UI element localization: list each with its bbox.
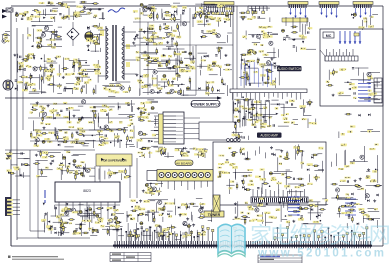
- signal arrow: [48, 221, 51, 223]
- value label: [77, 15, 81, 17]
- wire: [171, 40, 173, 46]
- wire: [101, 12, 103, 19]
- value label: [254, 121, 258, 123]
- diode D65: [50, 225, 52, 228]
- value label: [257, 205, 261, 207]
- value label: [6, 153, 12, 155]
- value label: [143, 75, 148, 77]
- value label: [263, 54, 269, 56]
- resistor R5: [80, 1, 87, 3]
- wire: [55, 128, 57, 140]
- wire: [219, 66, 221, 76]
- wire: [144, 68, 155, 70]
- signal arrow: [292, 39, 295, 41]
- value label: [159, 214, 163, 216]
- wire: [148, 112, 158, 114]
- wire: [129, 145, 135, 147]
- wire: [278, 181, 280, 194]
- wire: [17, 85, 19, 91]
- signal arrow: [241, 180, 243, 183]
- capacitor C65: [291, 103, 292, 105]
- capacitor C133: [54, 228, 56, 229]
- capacitor C59: [249, 84, 250, 86]
- wire: [107, 112, 109, 123]
- wire: [33, 29, 35, 42]
- ground: [133, 37, 136, 40]
- wire: [279, 197, 293, 199]
- capacitor C16: [20, 56, 21, 58]
- value label: [113, 91, 119, 93]
- capacitor C144: [201, 31, 203, 32]
- value label: [62, 222, 65, 224]
- transistor Q39: [216, 34, 220, 38]
- wire: [314, 170, 324, 172]
- wire: [164, 82, 166, 89]
- value label: [50, 17, 54, 19]
- capacitor C37: [164, 23, 165, 25]
- wire: [364, 99, 380, 101]
- value label: [79, 128, 84, 130]
- wire: [143, 103, 145, 110]
- diode D75: [357, 223, 359, 226]
- value label: [65, 6, 70, 8]
- svg-text:MC: MC: [326, 34, 332, 38]
- value label: [133, 10, 138, 12]
- wire: [23, 12, 28, 14]
- value label: [114, 136, 118, 138]
- wire: [99, 18, 105, 20]
- wire: [87, 207, 89, 217]
- diode D36: [368, 114, 370, 117]
- capacitor C76: [352, 68, 354, 69]
- wire: [58, 231, 60, 236]
- wire: [303, 222, 308, 224]
- box optocoupler: [199, 122, 240, 141]
- resistor R142: [315, 174, 317, 181]
- value label: [218, 6, 221, 8]
- value label: [98, 144, 104, 146]
- wire: [54, 38, 62, 40]
- value label: [24, 60, 28, 62]
- capacitor C42: [169, 67, 170, 69]
- value label: [39, 106, 44, 108]
- node N17: [236, 134, 238, 136]
- capacitor C123: [75, 229, 77, 230]
- wire: [105, 86, 121, 88]
- wire: [336, 153, 338, 166]
- wire: [38, 175, 47, 177]
- value label: [370, 16, 373, 18]
- wire: [184, 57, 196, 59]
- node N30: [137, 215, 139, 217]
- wire: [32, 25, 36, 27]
- value label: [162, 230, 166, 232]
- signal arrow: [163, 54, 166, 56]
- wire: [118, 113, 135, 115]
- resistor R196: [239, 12, 246, 14]
- resistor R36: [174, 15, 176, 22]
- value label: [153, 43, 158, 46]
- value label: [143, 109, 147, 112]
- wire: [72, 12, 74, 20]
- value label: [313, 122, 317, 124]
- wire: [158, 81, 167, 83]
- resistor R26: [79, 60, 81, 67]
- wire: [198, 52, 208, 54]
- signal arrow: [53, 117, 56, 119]
- resistor R62: [221, 78, 223, 85]
- connector CN10 top comb: [203, 6, 234, 15]
- value label: [146, 147, 149, 149]
- value label: [56, 215, 60, 217]
- signal arrow: [43, 17, 46, 19]
- value label: [299, 105, 305, 108]
- connector CN9 board edge strip: [113, 241, 372, 248]
- wire: [360, 131, 372, 133]
- box MC section: [320, 29, 383, 106]
- wire: [277, 157, 279, 172]
- wire: [288, 191, 304, 193]
- capacitor row CN10: [204, 2, 234, 5]
- resistor R172: [92, 227, 94, 234]
- diode D42: [60, 162, 62, 165]
- wire: [186, 89, 208, 91]
- electrolytic capacitor C36: [205, 15, 208, 18]
- capacitor C125: [77, 214, 79, 215]
- wire: [160, 226, 162, 240]
- value label: [183, 235, 188, 237]
- wire: [11, 164, 18, 166]
- wire: [252, 42, 260, 44]
- resistor R163: [63, 226, 65, 233]
- transistor Q37: [350, 202, 354, 206]
- value label: [341, 133, 345, 136]
- transistor Q7: [182, 22, 186, 26]
- wire: [338, 132, 340, 139]
- value label: [368, 25, 374, 27]
- svg-text:维: 维: [290, 223, 312, 248]
- resistor R123: [139, 148, 146, 150]
- blue mark CN2: [44, 190, 46, 203]
- wire: [235, 172, 237, 179]
- diode D61: [244, 188, 246, 191]
- wire: [116, 81, 131, 83]
- resistor R46: [163, 28, 170, 30]
- diode D63: [377, 194, 379, 197]
- electrolytic capacitor C1: [23, 13, 26, 16]
- value label: [374, 208, 378, 210]
- resistor R20: [30, 73, 32, 80]
- diode D76: [283, 38, 285, 41]
- resistor R58: [218, 47, 220, 54]
- value label: [268, 117, 271, 119]
- signal arrow: [87, 48, 89, 51]
- value label: [260, 126, 265, 128]
- value label: [61, 17, 66, 19]
- diode D39: [129, 140, 131, 143]
- ground: [6, 153, 9, 156]
- value label: [338, 168, 344, 170]
- wire: [25, 165, 30, 167]
- wire: [211, 4, 218, 6]
- capacitor C124: [81, 212, 82, 214]
- electrolytic capacitor C119: [232, 153, 235, 156]
- connector CN13 top comb: [319, 2, 339, 19]
- capacitor C24: [73, 65, 75, 66]
- resistor R77: [243, 99, 250, 101]
- wire: [5, 153, 25, 155]
- diode D55: [307, 168, 309, 171]
- wire: [280, 205, 282, 222]
- value label: [230, 181, 234, 183]
- diode D70: [311, 208, 313, 211]
- value label: [63, 138, 69, 140]
- transistor Q32: [71, 208, 75, 212]
- diode D72: [367, 199, 369, 202]
- resistor R113: [40, 150, 42, 157]
- diode D58: [271, 153, 273, 156]
- value label: [46, 225, 52, 228]
- value label: [32, 89, 36, 91]
- value label: [253, 114, 256, 116]
- value label: [281, 173, 284, 176]
- value label: [147, 189, 152, 191]
- value label: [207, 66, 210, 68]
- value label: [78, 65, 82, 67]
- node N14: [246, 110, 248, 112]
- capacitor C87: [60, 110, 62, 111]
- SAW filter Z1: [213, 195, 220, 212]
- capacitor C111: [200, 207, 202, 208]
- resistor R82: [238, 133, 240, 140]
- value label: [229, 187, 233, 189]
- value label: [30, 83, 36, 85]
- capacitor C13: [54, 43, 55, 45]
- value label: [97, 27, 103, 30]
- wire: [233, 172, 252, 174]
- value label: [104, 138, 109, 140]
- value label: [82, 220, 86, 222]
- transistor Q19: [35, 138, 39, 142]
- value label: [70, 141, 75, 143]
- wire: [90, 30, 92, 44]
- wire: [89, 175, 95, 177]
- resistor R189: [339, 205, 346, 207]
- value label: [100, 109, 106, 111]
- capacitor C19: [30, 76, 32, 77]
- resistor R188: [359, 212, 366, 214]
- diode D19: [176, 73, 178, 76]
- value label: [212, 61, 216, 64]
- value label: [131, 200, 136, 202]
- wire: [170, 14, 172, 21]
- value label: [77, 128, 81, 130]
- svg-text:AUDIO SWITCH: AUDIO SWITCH: [277, 67, 301, 71]
- resistor R137: [242, 175, 249, 177]
- resistor R52: [156, 48, 158, 55]
- value label: [210, 81, 214, 83]
- wire: [73, 109, 80, 111]
- capacitor C141: [348, 214, 349, 216]
- node N46: [294, 39, 296, 41]
- resistor R154: [298, 144, 300, 151]
- value label: [326, 81, 330, 83]
- capacitor C26: [64, 89, 65, 91]
- resistor R57: [224, 64, 231, 66]
- transistor Q20: [101, 140, 105, 144]
- svg-text:家: 家: [250, 223, 272, 248]
- value label: [58, 219, 61, 221]
- value label: [176, 53, 182, 55]
- value label: [275, 107, 279, 110]
- resistor R177: [80, 223, 82, 230]
- wire: [96, 134, 103, 136]
- wire: [84, 68, 100, 70]
- value label: [88, 228, 92, 230]
- value label: [309, 204, 315, 206]
- value label: [341, 144, 347, 146]
- value label: [221, 4, 225, 6]
- value label: [172, 91, 177, 93]
- value label: [228, 147, 232, 149]
- signal arrow: [201, 36, 203, 39]
- value label: [61, 210, 65, 213]
- node N13: [243, 118, 245, 120]
- wire: [63, 1, 76, 3]
- value label: [283, 117, 288, 120]
- wire: [267, 69, 269, 77]
- wire: [150, 191, 152, 196]
- value label: [212, 33, 217, 35]
- node N18: [347, 81, 349, 83]
- node N8: [181, 84, 183, 86]
- wire: [186, 151, 188, 156]
- wire bottom-left loop inner: [30, 150, 45, 231]
- node N25: [151, 140, 153, 142]
- value label: [347, 131, 352, 133]
- value label: [81, 75, 87, 77]
- node N21: [92, 135, 94, 137]
- wire: [142, 8, 144, 15]
- ground: [332, 94, 335, 97]
- wire: [62, 165, 64, 175]
- title block table 2: [258, 255, 302, 263]
- wire: [182, 94, 188, 96]
- wire: [127, 223, 129, 237]
- wire: [155, 117, 157, 126]
- value label: [106, 106, 109, 108]
- wire: [254, 115, 256, 127]
- value label: [113, 218, 117, 220]
- svg-text:POWER SUPPLY: POWER SUPPLY: [191, 103, 220, 107]
- value label: [75, 139, 80, 141]
- value label: [47, 79, 50, 81]
- signal arrow: [131, 235, 134, 237]
- capacitor C84: [105, 135, 106, 137]
- wire: [145, 211, 159, 213]
- capacitor C110: [147, 211, 149, 212]
- wire: [39, 169, 53, 171]
- wire: [15, 18, 17, 22]
- wire: [22, 172, 24, 178]
- wire: [64, 149, 70, 151]
- wire: [294, 145, 296, 159]
- wire: [266, 221, 273, 223]
- wire: [310, 207, 312, 220]
- wire: [158, 68, 175, 70]
- pins U2: [59, 202, 115, 223]
- resistor R182: [319, 209, 326, 211]
- value label: [263, 32, 267, 35]
- value label: [240, 212, 243, 214]
- wire: [78, 105, 83, 107]
- wire: [278, 71, 280, 86]
- wire: [199, 64, 201, 69]
- transistor Q40: [120, 86, 124, 90]
- capacitor C139: [301, 216, 303, 217]
- value label: [341, 144, 347, 146]
- value label: [63, 136, 69, 138]
- resistor R165: [62, 222, 69, 224]
- wire: [62, 154, 64, 160]
- wire: [269, 17, 271, 22]
- wire: [244, 217, 250, 219]
- ground: [224, 54, 227, 57]
- value label: [190, 67, 196, 69]
- wire: [87, 8, 105, 10]
- value label: [109, 121, 113, 123]
- value label: [169, 202, 175, 204]
- diode D22: [204, 55, 206, 58]
- value label: [203, 231, 206, 233]
- value label: [139, 82, 144, 84]
- transistor Q17: [367, 72, 371, 76]
- resistor R115: [73, 173, 80, 175]
- value label: [234, 218, 240, 220]
- ground: [166, 41, 169, 44]
- wire: [39, 74, 41, 89]
- wire: [102, 85, 115, 87]
- value label: [42, 151, 48, 154]
- capacitor C121: [347, 180, 348, 182]
- value label: [245, 98, 249, 100]
- wire: [267, 52, 276, 54]
- wire: [350, 79, 368, 81]
- wire: [152, 75, 154, 86]
- value label: [215, 65, 219, 67]
- capacitor C148: [293, 46, 295, 47]
- ground: [139, 199, 142, 202]
- wire secondary rail 3: [33, 129, 128, 131]
- capacitor C68: [286, 101, 287, 103]
- transistor Q4: [33, 67, 37, 71]
- value label: [247, 169, 253, 171]
- capacitor C86: [93, 107, 95, 108]
- ground: [159, 148, 162, 151]
- wire: [50, 34, 52, 48]
- value label: [212, 29, 215, 32]
- diode D4: [42, 31, 44, 34]
- value label: [153, 84, 158, 86]
- value label: [43, 219, 46, 221]
- wire: [126, 211, 128, 222]
- wire secondary rail 4: [30, 140, 120, 142]
- resistor R24: [22, 59, 29, 61]
- wire: [275, 149, 280, 151]
- wire left bus 3: [22, 34, 24, 130]
- capacitor C138: [301, 208, 303, 209]
- wire: [82, 216, 84, 221]
